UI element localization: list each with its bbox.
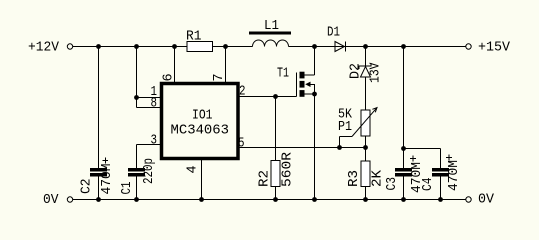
- svg-text:C4: C4: [421, 178, 436, 192]
- T1 channel bar drain: [300, 72, 305, 79]
- svg-text:220p: 220p: [142, 158, 157, 184]
- node junction ground C4: [438, 197, 443, 202]
- wire C2 column top: [98, 47, 100, 169]
- node junction top rail pin7: [223, 44, 228, 49]
- svg-text:0V: 0V: [478, 193, 495, 208]
- terminal 0V left: [67, 197, 72, 202]
- svg-text:2: 2: [239, 85, 246, 100]
- wire pins1-8 feed column: [136, 47, 138, 108]
- svg-text:+12V: +12V: [28, 41, 60, 56]
- wire pin2 to T1 gate: [240, 96, 297, 98]
- node junction top rail C3: [401, 44, 406, 49]
- node junction pin1: [134, 95, 139, 100]
- node junction ground R2: [273, 197, 278, 202]
- svg-text:P1: P1: [338, 120, 352, 135]
- potentiometer P1: [361, 110, 370, 136]
- svg-text:13V: 13V: [369, 62, 384, 83]
- T1 gate bar: [296, 73, 298, 97]
- C2 polarity plus: [103, 158, 109, 164]
- wire C1 column bottom: [136, 177, 138, 200]
- node junction feedback P1/R3: [363, 145, 368, 150]
- node junction ground pin4: [199, 197, 204, 202]
- node junction ground C3: [401, 197, 406, 202]
- P1 wiper arrow: [352, 108, 377, 136]
- svg-text:D2: D2: [349, 63, 364, 79]
- wire top rail +12V left section: [73, 46, 253, 48]
- svg-text:6: 6: [162, 73, 177, 81]
- terminal +12V: [67, 44, 72, 49]
- svg-text:7: 7: [212, 73, 227, 81]
- terminal 0V right: [466, 197, 471, 202]
- svg-text:C3: C3: [385, 177, 400, 191]
- T1 source lead: [305, 93, 315, 95]
- svg-text:3: 3: [151, 134, 158, 149]
- capacitor C4 plates: [432, 168, 449, 172]
- svg-text:T1: T1: [277, 67, 289, 82]
- svg-text:R3: R3: [347, 170, 362, 187]
- T1 bulk lead: [310, 84, 315, 94]
- wire C4 column top: [440, 149, 442, 169]
- node junction ground C2: [96, 197, 101, 202]
- node junction pin2 R2: [273, 94, 278, 99]
- resistor R3: [361, 161, 370, 187]
- inductor L1 winding: [253, 40, 289, 47]
- resistor R2: [271, 161, 280, 187]
- node junction ground R3: [363, 197, 368, 202]
- capacitor C3 plates: [395, 168, 412, 172]
- svg-text:+15V: +15V: [478, 41, 511, 56]
- svg-text:4: 4: [186, 165, 201, 173]
- wire R3 bottom: [365, 187, 367, 200]
- wire pin7 stub: [225, 47, 227, 83]
- T1 channel bar bulk: [300, 81, 305, 88]
- svg-text:2K: 2K: [371, 169, 386, 187]
- diode D1: [335, 42, 346, 52]
- node junction feedback wiper: [337, 145, 342, 150]
- C4 polarity plus: [446, 155, 452, 161]
- capacitor C2 plates: [90, 168, 107, 172]
- svg-text:IO1: IO1: [192, 109, 213, 124]
- svg-text:5: 5: [238, 137, 245, 152]
- node junction C3/C4 tie: [401, 146, 406, 151]
- svg-text:470M: 470M: [100, 164, 115, 195]
- node junction top rail pin6: [172, 44, 177, 49]
- node junction ground T1 source: [312, 197, 317, 202]
- wire C4 column bottom: [440, 177, 442, 200]
- terminal +15V: [466, 44, 471, 49]
- inductor L1 core bar: [249, 32, 291, 35]
- wire C1 column top: [136, 145, 138, 169]
- wire P1 bottom lead: [365, 136, 367, 148]
- svg-text:MC34063: MC34063: [171, 124, 230, 139]
- wire T1 source to ground: [314, 94, 316, 200]
- svg-text:C1: C1: [120, 182, 135, 195]
- wire C2 column bottom: [98, 177, 100, 200]
- wire R2 column bottom: [275, 187, 277, 200]
- wire C3-C4 tie line: [404, 148, 441, 150]
- T1 bulk arrow: [305, 82, 310, 87]
- resistor R1: [187, 42, 213, 52]
- transistor Q/T1 MOSFET: [297, 72, 315, 97]
- capacitor C1 plates: [128, 168, 145, 172]
- node junction D1/D2: [363, 44, 368, 49]
- wire top rail right section after L1: [289, 46, 466, 48]
- svg-text:8: 8: [151, 97, 158, 112]
- wire C3 column bottom: [403, 177, 405, 200]
- T1 channel bar source: [300, 90, 305, 97]
- wire C3 column: [403, 47, 405, 169]
- wire R2 column top: [275, 97, 277, 161]
- node junction top rail pins1-8: [134, 44, 139, 49]
- zener diode D2: [359, 63, 371, 77]
- wire D2 column top: [365, 47, 367, 67]
- wire 0V ground rail: [73, 199, 466, 201]
- wire R3 top: [365, 148, 367, 162]
- wire P1 wiper vertical: [339, 137, 341, 148]
- svg-text:L1: L1: [264, 19, 279, 34]
- svg-text:0V: 0V: [43, 193, 59, 208]
- node junction top rail C2: [96, 44, 101, 49]
- wire pin1 stub: [137, 97, 161, 99]
- wire pin8 stub: [137, 107, 161, 109]
- wire pin4 stub: [201, 160, 203, 200]
- node junction T1 source lead: [312, 92, 317, 97]
- node junction L1/D1/T1 drain: [312, 44, 317, 49]
- node junction ground C1: [134, 197, 139, 202]
- svg-text:560R: 560R: [281, 152, 296, 187]
- wire D2 to P1: [365, 77, 367, 110]
- wire pin3 stub: [137, 144, 161, 146]
- op-amp / IC IO1 box: [162, 84, 239, 159]
- svg-text:470M: 470M: [447, 160, 462, 191]
- wire P1 wiper horizontal: [340, 136, 353, 138]
- svg-text:R1: R1: [186, 30, 202, 45]
- wire pin5 feedback line: [240, 147, 366, 149]
- svg-text:R2: R2: [258, 170, 273, 187]
- svg-text:D1: D1: [327, 26, 340, 41]
- T1 drain lead: [305, 74, 315, 76]
- svg-text:C2: C2: [80, 179, 95, 195]
- wire pin6 stub: [174, 47, 176, 83]
- C3 polarity plus: [410, 156, 416, 162]
- wire T1 drain to rail: [314, 47, 316, 76]
